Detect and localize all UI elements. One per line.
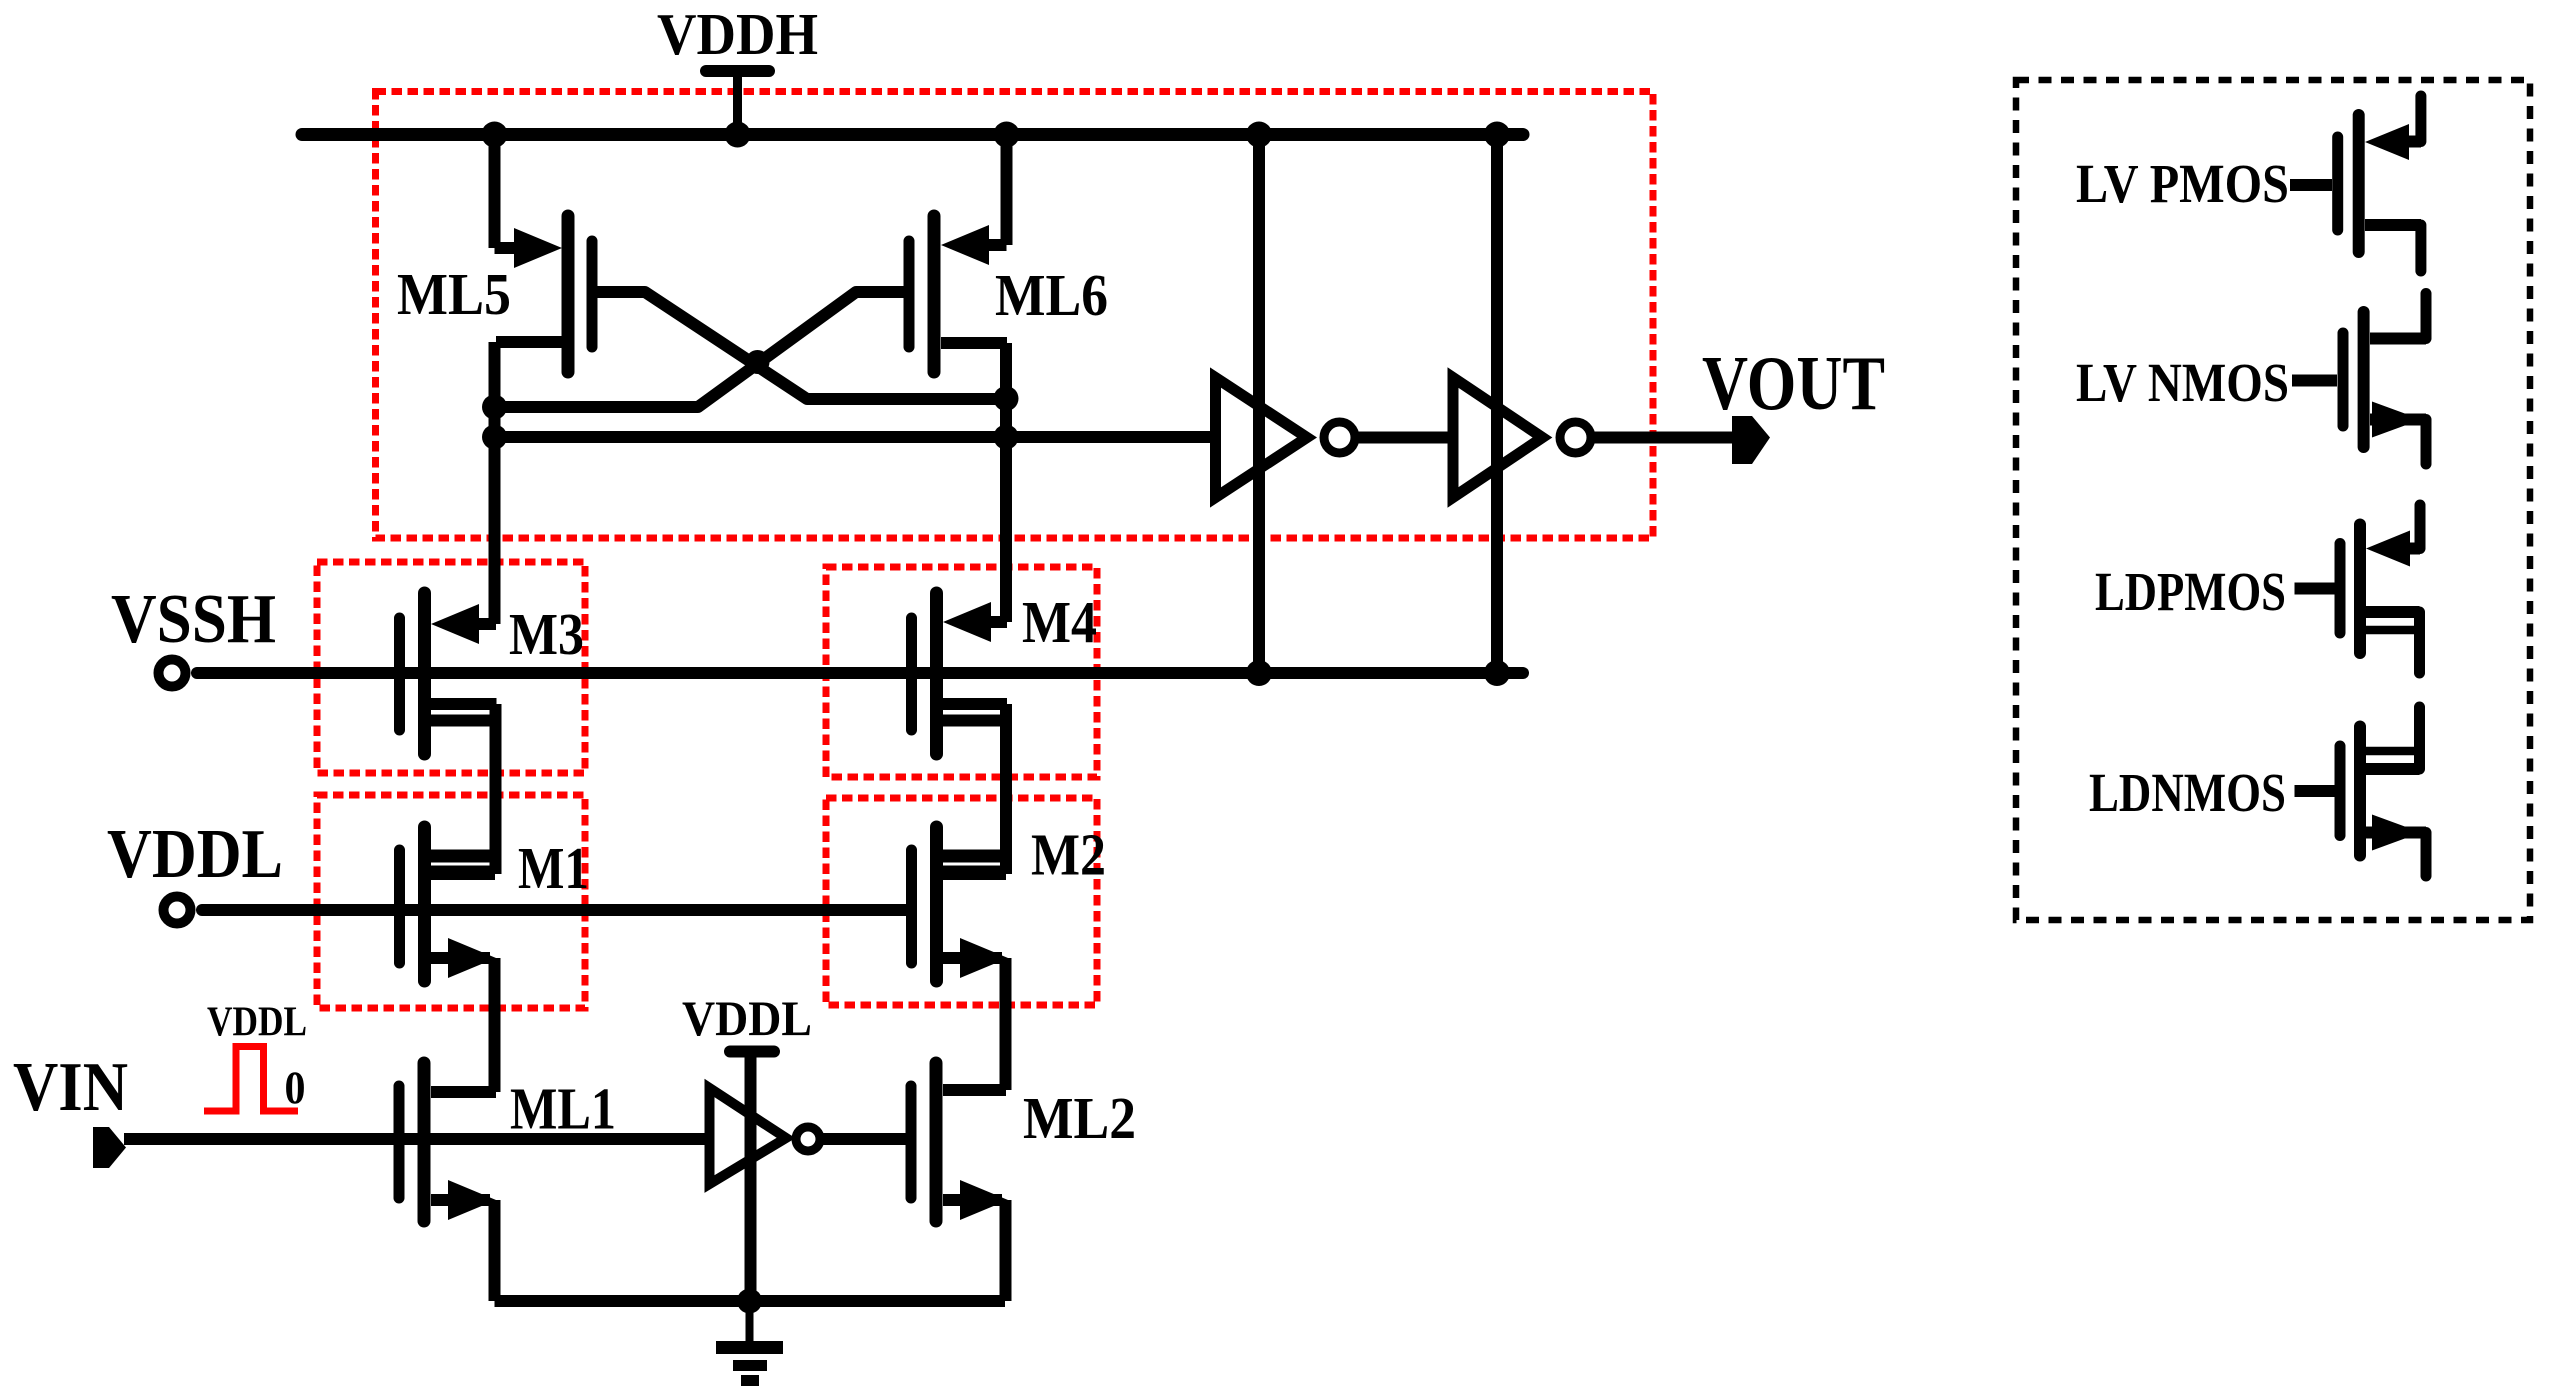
wire ML1 source down — [489, 1200, 501, 1301]
transistor ML2 (LV NMOS) — [911, 1063, 1008, 1221]
svg-text:LV PMOS: LV PMOS — [2076, 153, 2289, 214]
terminal VSSH — [159, 660, 186, 687]
svg-text:LV NMOS: LV NMOS — [2076, 352, 2289, 413]
wire ML5 drain column — [489, 342, 501, 624]
wire M4 drain column — [1000, 704, 1012, 874]
transistor M4 (LDPMOS) — [912, 593, 1008, 754]
red dashed box top (high-voltage latch region) — [376, 92, 1654, 539]
node X crossing dot — [746, 350, 770, 374]
wire cross-couple ML6 gate to left node — [495, 292, 910, 407]
legend dashed border — [2016, 80, 2530, 920]
red dashed box M3 — [317, 562, 585, 773]
svg-text:ML6: ML6 — [995, 262, 1108, 328]
svg-text:M3: M3 — [509, 601, 584, 667]
node dots latch outputs — [482, 395, 507, 420]
inverter U3 triangle — [710, 1088, 787, 1184]
wire M3 drain column — [490, 704, 502, 874]
wire ML5 source drop — [495, 128, 529, 248]
svg-text:VDDH: VDDH — [657, 1, 818, 67]
red dashed box M2 — [826, 798, 1097, 1005]
transistor ML1 (LV NMOS) — [399, 1063, 496, 1221]
terminal VIN — [93, 1127, 126, 1168]
wire M2 source column — [1000, 958, 1012, 1090]
svg-text:VSSH: VSSH — [111, 581, 276, 658]
node dot bottom rail — [737, 1289, 762, 1314]
legend LV PMOS symbol — [2290, 96, 2421, 271]
wire U2 out to VOUT — [1592, 432, 1732, 444]
transistor M3 (LDPMOS) — [400, 593, 497, 754]
node dots top rail — [482, 122, 508, 148]
wire inverter U2 supply vertical — [1491, 135, 1503, 673]
svg-text:VDDL: VDDL — [682, 990, 812, 1046]
wire cross-couple ML5 gate to right node — [592, 292, 1006, 399]
inverter U1 bubble — [1324, 422, 1355, 453]
wire VDDL gate line — [202, 904, 906, 916]
svg-text:M1: M1 — [518, 835, 589, 901]
transistor ML5 (LV PMOS) — [496, 216, 592, 372]
svg-text:ML1: ML1 — [510, 1076, 616, 1142]
svg-text:VOUT: VOUT — [1702, 340, 1885, 426]
wire VSSH gate line — [197, 667, 1523, 679]
svg-text:LDNMOS: LDNMOS — [2089, 762, 2286, 823]
svg-text:0: 0 — [285, 1062, 306, 1114]
transistor M1 (LDNMOS) — [400, 827, 500, 981]
svg-text:M2: M2 — [1031, 822, 1106, 888]
inverter U3 bubble — [796, 1127, 820, 1151]
waveform red pulse — [204, 1047, 298, 1112]
wire U1 out to U2 in — [1356, 432, 1448, 444]
inverter U2 triangle — [1453, 378, 1543, 498]
red dashed box M1 — [317, 795, 585, 1008]
transistor ML6 (LV PMOS mirrored) — [909, 216, 1007, 372]
power symbol VDDL tap — [730, 1046, 774, 1058]
terminal VOUT — [1732, 416, 1770, 464]
svg-text:VIN: VIN — [13, 1049, 128, 1126]
node dots VSSH line — [1246, 660, 1272, 686]
wire U3 out to ML2 gate — [821, 1133, 906, 1145]
legend LDPMOS symbol — [2295, 505, 2421, 673]
wire M1 source column — [489, 958, 501, 1092]
svg-text:LDPMOS: LDPMOS — [2095, 561, 2286, 622]
wire ML6 drain column — [1000, 343, 1012, 622]
power symbol VDDH tap — [706, 65, 769, 77]
inverter U1 triangle — [1216, 378, 1308, 498]
legend LDNMOS symbol — [2295, 707, 2427, 876]
legend LV NMOS symbol — [2292, 294, 2426, 465]
wire inverter U1 supply vertical — [1253, 135, 1265, 673]
wire ML6 source drop — [986, 128, 1007, 245]
wire VIN line — [124, 1133, 705, 1145]
svg-text:ML2: ML2 — [1023, 1085, 1136, 1151]
red dashed box M4 — [826, 567, 1097, 777]
ground symbol — [716, 1301, 783, 1381]
svg-text:M4: M4 — [1022, 589, 1097, 655]
svg-text:VDDL: VDDL — [207, 1000, 307, 1046]
wire bottom rail — [495, 1295, 1006, 1307]
wire inverter U3 supply vertical — [745, 1051, 757, 1301]
wire top VDDH rail — [302, 128, 1523, 141]
svg-text:VDDL: VDDL — [107, 816, 283, 893]
svg-text:ML5: ML5 — [397, 261, 511, 327]
terminal VDDL — [164, 897, 191, 924]
wire ML2 source down — [1000, 1200, 1012, 1301]
transistor M2 (LDNMOS) — [912, 827, 1011, 981]
inverter U2 bubble — [1560, 422, 1591, 453]
wire mid rail to inverter input — [495, 431, 1211, 443]
